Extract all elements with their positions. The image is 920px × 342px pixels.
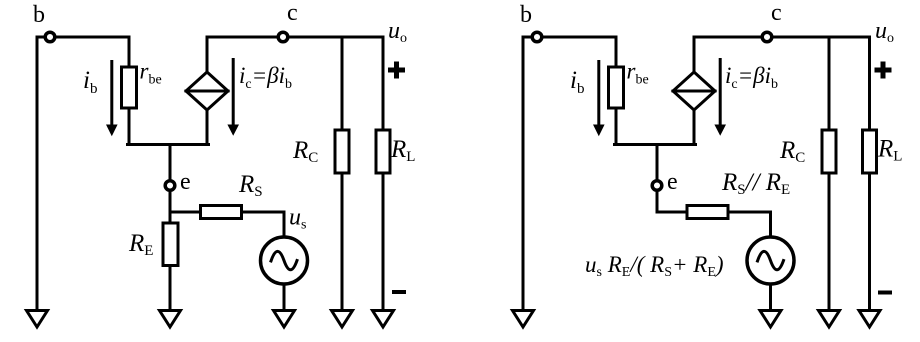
svg-text:ic=βib: ic=βib [239, 63, 292, 92]
node b terminal circle (right) [532, 32, 542, 42]
wire r_be bottom to bottom rail [128, 108, 131, 145]
svg-text:RC: RC [292, 137, 318, 166]
wire R_E top [169, 212, 172, 223]
resistor r_be [122, 67, 137, 108]
svg-text:RS: RS [238, 171, 263, 200]
wire e node down to R_S junction [169, 191, 172, 212]
svg-text:us RE/( RS+ RE): us RE/( RS+ RE) [585, 252, 724, 280]
resistor R_L [376, 130, 390, 173]
source u_s circle [261, 237, 308, 284]
svg-text:ic=βib: ic=βib [725, 63, 778, 92]
node circles [45, 32, 772, 190]
ground (under R_L, right) [859, 311, 880, 328]
node b terminal circle (left) [45, 32, 55, 42]
resistor r_be (right) [609, 67, 624, 108]
wire top rail (right) [694, 36, 870, 39]
svg-text:b: b [520, 2, 532, 28]
wire R_L from rail corner down (right) [868, 37, 871, 130]
ground (under b, right) [513, 311, 534, 328]
ground (under R_C) [332, 311, 353, 328]
ground (under R_C, right) [819, 311, 840, 328]
wire junction to e node [169, 145, 172, 181]
svg-text:e: e [667, 169, 678, 195]
wire bottom rail (r_be to diamond) [128, 143, 209, 146]
svg-text:ib: ib [570, 67, 584, 97]
resistor R_C (right) [822, 130, 836, 173]
arrow i_c (left) [232, 58, 235, 126]
dependent source diamond (i_c = beta i_b) [186, 72, 228, 110]
svg-text:RC: RC [779, 137, 805, 166]
wire R_E bottom to ground [169, 266, 172, 310]
plus / minus signs [388, 62, 892, 293]
svg-text:b: b [33, 2, 45, 28]
svg-text:us: us [289, 205, 306, 233]
ground (under source) [274, 311, 295, 328]
sine wave inside source (right) [758, 251, 784, 269]
node e circle (left) [165, 181, 175, 191]
minus sign u_o (left) [392, 290, 406, 294]
source circle (right) [747, 237, 794, 284]
wire b-node right to r_be top [53, 37, 129, 67]
wire r_be bottom to bottom rail (right) [615, 108, 618, 145]
wire source bottom to ground (right) [769, 284, 772, 309]
wire R_S to source [242, 212, 285, 237]
wire top rail (diamond to R_L corner) [207, 36, 383, 39]
resistor R_C [335, 130, 349, 173]
svg-text:uo: uo [875, 18, 894, 46]
wire R_L from rail corner down [382, 37, 385, 130]
wire b-node right to r_be top (right) [540, 37, 616, 67]
node c terminal circle (left) [278, 32, 288, 42]
wire diamond top to top rail (right) [693, 37, 696, 72]
wire diamond bottom to bottom rail [206, 110, 209, 145]
wire e node down to R junction (right) [656, 191, 659, 212]
ground (under R_E) [160, 311, 181, 328]
node c terminal circle (right) [762, 32, 772, 42]
svg-text:c: c [287, 0, 298, 26]
svg-text:RL: RL [877, 136, 902, 165]
arrow i_b (left) [110, 60, 113, 126]
arrow i_c (right) [719, 58, 722, 126]
minus sign u_o (right) [878, 291, 892, 295]
wire b-node to left rail and down to ground [37, 37, 47, 309]
resistor R_E [163, 223, 178, 266]
wire resistor to source (right) [728, 212, 771, 237]
arrow i_b (right) [597, 60, 600, 126]
wire R_L bottom to ground [382, 173, 385, 309]
svg-text:rbe: rbe [140, 59, 162, 88]
svg-text:ib: ib [83, 67, 97, 97]
svg-text:RL: RL [390, 136, 415, 165]
svg-text:uo: uo [388, 18, 407, 46]
wire e junction to R_S [170, 211, 201, 214]
resistor R_L (right) [863, 130, 877, 173]
svg-text:e: e [180, 169, 191, 195]
plus sign u_o (left) [388, 62, 405, 79]
ground (under source, right) [760, 311, 781, 328]
wire R_C from rail down [341, 37, 344, 130]
wire R_C from rail down (right) [828, 37, 831, 130]
wire R_C bottom to ground [341, 173, 344, 309]
resistor R_S//R_E [687, 206, 728, 219]
wire b-node to left rail and down to ground (right) [523, 37, 534, 309]
wire junction to e node (right) [656, 145, 659, 181]
wire e to R_S//R_E resistor (right) [657, 211, 687, 214]
wire diamond bottom to rail (right) [693, 110, 696, 145]
svg-text:c: c [771, 0, 782, 26]
dependent source diamond (right) [673, 72, 715, 110]
wire bottom rail (right) [615, 143, 696, 146]
svg-text:RS// RE: RS// RE [721, 169, 790, 198]
svg-text:rbe: rbe [627, 59, 649, 88]
current arrows (filled) [106, 58, 726, 136]
ground (left, under b) [27, 311, 48, 328]
sine wave inside source [271, 251, 297, 269]
svg-text:RE: RE [128, 230, 153, 259]
node e circle (right) [652, 181, 662, 191]
wire source bottom to ground [283, 284, 286, 309]
plus sign u_o (right) [875, 62, 892, 79]
wire R_L bottom to ground (right) [868, 173, 871, 309]
ground (under R_L) [373, 311, 394, 328]
resistor R_S [201, 206, 242, 219]
wire R_C bottom to ground (right) [828, 173, 831, 309]
wire diamond top to top rail [206, 37, 209, 72]
